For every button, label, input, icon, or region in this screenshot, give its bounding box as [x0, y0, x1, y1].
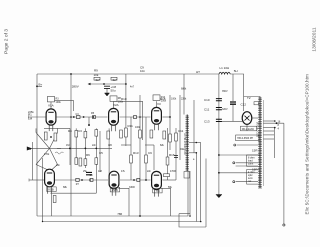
svg-text:5H: 5H: [234, 69, 238, 73]
svg-text:T2: T2: [247, 96, 251, 100]
svg-text:C9: C9: [148, 151, 152, 155]
svg-text:280V: 280V: [72, 85, 79, 89]
svg-text:4k7: 4k7: [112, 78, 117, 82]
svg-text:R9: R9: [94, 69, 98, 73]
svg-text:conn: conn: [248, 163, 254, 166]
svg-text:100k: 100k: [171, 98, 177, 101]
svg-text:R7: R7: [76, 183, 80, 186]
svg-text:10n: 10n: [56, 164, 61, 167]
svg-text:47k: 47k: [121, 170, 126, 173]
svg-text:1k5: 1k5: [108, 144, 113, 147]
svg-text:470R: 470R: [170, 170, 176, 173]
svg-text:C3: C3: [78, 129, 82, 133]
svg-text:SEC 0-4-8-16: SEC 0-4-8-16: [256, 121, 259, 137]
svg-text:470k: 470k: [44, 153, 50, 156]
svg-text:330R: 330R: [129, 186, 135, 189]
svg-text:HT: HT: [196, 70, 200, 74]
svg-text:22n: 22n: [147, 170, 152, 173]
svg-text:V4: V4: [156, 189, 160, 193]
svg-text:1M: 1M: [66, 144, 69, 147]
svg-text:PP OUTPUT 8k CT: PP OUTPUT 8k CT: [184, 133, 187, 155]
svg-text:4: 4: [278, 127, 280, 130]
svg-text:68k: 68k: [63, 186, 68, 189]
svg-text:680k: 680k: [181, 88, 187, 91]
svg-text:R4: R4: [68, 129, 72, 133]
svg-text:15R: 15R: [252, 149, 258, 153]
svg-text:320V: 320V: [222, 108, 228, 111]
svg-text:R11: R11: [128, 124, 134, 128]
svg-text:C11: C11: [204, 108, 210, 112]
svg-text:R16: R16: [169, 153, 175, 157]
svg-text:100k: 100k: [56, 101, 62, 104]
svg-text:DN-2-EL84: DN-2-EL84: [242, 128, 255, 131]
svg-text:1k8: 1k8: [98, 170, 103, 173]
svg-text:22n: 22n: [92, 144, 97, 147]
svg-text:C10: C10: [204, 98, 210, 102]
svg-text:a: a: [193, 158, 195, 161]
svg-text:10n: 10n: [140, 69, 145, 73]
svg-text:out: out: [248, 180, 252, 183]
svg-text:56k: 56k: [168, 186, 173, 189]
svg-text:C12: C12: [241, 103, 247, 107]
svg-text:V3: V3: [157, 102, 161, 106]
svg-text:V2B: V2B: [112, 188, 118, 192]
svg-text:100k: 100k: [118, 100, 124, 103]
svg-text:C6: C6: [90, 174, 94, 177]
svg-text:V1A: V1A: [48, 104, 54, 108]
svg-text:B+: B+: [39, 83, 43, 87]
svg-text:R13: R13: [133, 151, 139, 155]
svg-text:4k7: 4k7: [95, 78, 100, 82]
svg-text:4n7: 4n7: [130, 85, 135, 88]
svg-text:10k: 10k: [94, 73, 99, 77]
svg-text:220k: 220k: [181, 98, 187, 101]
svg-text:R6: R6: [86, 153, 90, 157]
svg-text:100k: 100k: [161, 99, 167, 102]
svg-text:225k: 225k: [28, 110, 34, 114]
svg-text:786-0-6503 PP: 786-0-6503 PP: [237, 137, 253, 140]
svg-text:V2A: V2A: [113, 103, 119, 107]
svg-text:50u: 50u: [111, 89, 116, 93]
svg-text:C5: C5: [99, 151, 103, 155]
svg-text:82k: 82k: [160, 144, 165, 147]
svg-text:25u: 25u: [83, 170, 88, 173]
svg-text:350V: 350V: [222, 90, 228, 93]
svg-text:IN: IN: [28, 147, 31, 151]
svg-text:L1 10H: L1 10H: [220, 66, 230, 70]
svg-text:1M: 1M: [28, 117, 33, 121]
svg-text:C11: C11: [178, 129, 184, 133]
svg-text:786: 786: [117, 212, 122, 216]
svg-text:C13: C13: [204, 119, 210, 123]
svg-text:100k: 100k: [135, 126, 141, 129]
svg-text:R5: R5: [91, 112, 95, 115]
svg-text:V1B: V1B: [48, 188, 54, 192]
